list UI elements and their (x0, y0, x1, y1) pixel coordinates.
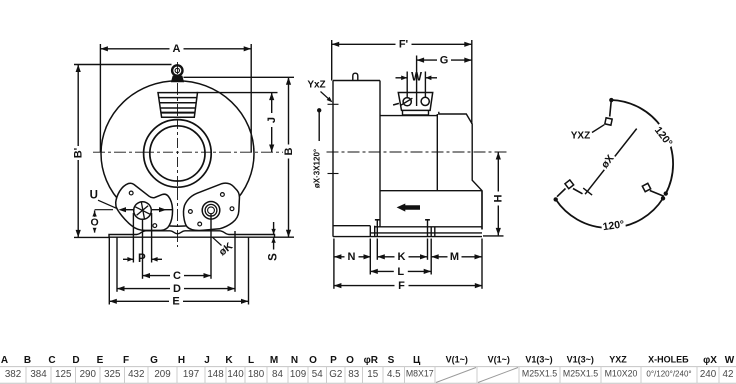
svg-text:148: 148 (207, 369, 224, 380)
dimension H extension line (483, 235, 504, 237)
svg-text:83: 83 (348, 369, 359, 380)
side view bolt hole tick bottom (328, 173, 339, 175)
front view inlet cross centerlines (144, 119, 211, 188)
side view cover plate outline (333, 81, 380, 237)
dimension B-prime line (73, 65, 85, 238)
front view inlet inner ring (150, 126, 205, 181)
dimension B line (283, 77, 295, 237)
svg-text:N: N (348, 251, 356, 263)
svg-text:54: 54 (312, 369, 323, 380)
svg-text:O: O (346, 355, 354, 366)
front view horizontal centerline (93, 151, 296, 153)
svg-text:J: J (266, 117, 278, 123)
svg-text:180: 180 (248, 369, 265, 380)
side view muffler flange right (431, 227, 435, 237)
svg-text:B: B (24, 355, 31, 366)
svg-text:E: E (97, 355, 104, 366)
bolt hole 3 (right) with jog (642, 183, 664, 196)
svg-text:V(1~): V(1~) (446, 355, 468, 365)
svg-text:G: G (150, 355, 158, 366)
svg-text:382: 382 (5, 369, 21, 380)
bolt circle arc bottom (120 deg) (556, 198, 663, 228)
bolt hole 2 (lower left) with jog (557, 180, 583, 197)
svg-text:A: A (1, 355, 8, 366)
dimension G extension line (416, 56, 418, 107)
dimension M line (431, 251, 482, 263)
dimension P extension lines (133, 213, 151, 263)
svg-text:U: U (90, 189, 98, 201)
dimension D line (117, 283, 235, 295)
svg-text:F: F (398, 280, 405, 292)
label phiX (rotated) (598, 151, 618, 172)
svg-text:209: 209 (154, 369, 170, 380)
dimension E extension lines (109, 237, 248, 304)
dimension E line (109, 296, 248, 308)
dimension N line (334, 251, 371, 263)
side view muffler tube top (375, 226, 482, 228)
svg-text:Ц: Ц (413, 355, 421, 366)
svg-text:125: 125 (55, 369, 72, 380)
side view outlet box (380, 191, 482, 230)
front view pad screw holes (129, 191, 234, 227)
svg-text:B': B' (73, 147, 85, 158)
svg-text:X-HOLEБ: X-HOLEБ (648, 355, 689, 365)
svg-text:4.5: 4.5 (387, 369, 401, 380)
svg-text:M25X1.5: M25X1.5 (563, 369, 598, 379)
bolt circle arc right (120 deg) (611, 100, 673, 194)
dimension A line (100, 43, 251, 55)
side view flow arrow (397, 204, 420, 212)
svg-text:290: 290 (80, 369, 97, 380)
bolt circle arc end dots (554, 98, 667, 201)
svg-text:N: N (291, 355, 298, 366)
svg-text:432: 432 (128, 369, 144, 380)
table borders (0, 367, 736, 384)
front view lifting eye boss (172, 76, 183, 81)
svg-text:C: C (48, 355, 55, 366)
svg-text:P: P (330, 355, 337, 366)
dimension J line (266, 93, 278, 152)
dimension H line (493, 152, 505, 235)
svg-text:V(1~): V(1~) (488, 355, 510, 365)
svg-text:E: E (172, 296, 179, 308)
dimension C extension lines (143, 214, 212, 279)
dimension W extension lines (407, 72, 425, 99)
dimension F-prime extension lines (332, 40, 472, 124)
svg-text:84: 84 (272, 369, 283, 380)
svg-text:197: 197 (183, 369, 199, 380)
front view right mounting pad (183, 183, 239, 230)
svg-text:W: W (725, 355, 735, 366)
side view muffler bolt left (375, 220, 380, 237)
phiX diagonal line (583, 129, 637, 196)
svg-text:O: O (91, 217, 99, 229)
side view cover bottom step (333, 225, 370, 227)
dimension O extension line (95, 209, 113, 211)
label 120 upper right (651, 123, 676, 150)
svg-text:384: 384 (30, 369, 47, 380)
side view bottom extension lines (334, 239, 482, 289)
dimension B extension lines (184, 77, 295, 237)
dimension phiX-3x120 line (313, 109, 322, 189)
svg-text:M10X20: M10X20 (605, 369, 638, 379)
dimension J extension line (197, 92, 278, 94)
side view terminal box (398, 93, 432, 115)
bolt hole 1 leader from YXZ (592, 125, 604, 133)
front view vertical centerline (177, 62, 179, 247)
dimension F line (334, 280, 482, 292)
svg-text:G2: G2 (329, 369, 342, 380)
front view housing circle (101, 81, 254, 227)
label YxZ with leader (307, 80, 332, 103)
dimension W line (396, 72, 438, 84)
svg-text:W: W (411, 72, 422, 84)
svg-text:K: K (398, 251, 406, 263)
label U with leader (90, 189, 117, 208)
dimension B-prime extension lines (74, 65, 172, 238)
svg-text:B: B (283, 147, 295, 155)
dimension G line (417, 55, 472, 67)
svg-text:M: M (450, 251, 459, 263)
svg-text:0°/120°/240°: 0°/120°/240° (646, 369, 691, 378)
svg-text:YXZ: YXZ (571, 130, 590, 141)
svg-text:F: F (123, 355, 129, 366)
svg-text:O: O (309, 355, 317, 366)
label 120 bottom (601, 218, 626, 234)
svg-text:109: 109 (290, 369, 306, 380)
svg-text:L: L (248, 355, 254, 366)
dimension F-prime line (332, 39, 472, 51)
dimension A extension lines (100, 44, 251, 152)
svg-text:V1(3~): V1(3~) (525, 355, 552, 365)
front view base plate (109, 231, 275, 237)
side view muffler bolt right (425, 220, 430, 237)
svg-text:F': F' (399, 39, 409, 51)
dimension S line (268, 222, 280, 261)
table N/A diagonal slashes (436, 368, 518, 383)
svg-text:V1(3~): V1(3~) (567, 355, 594, 365)
side view motor outline (439, 112, 482, 230)
side view cable glands (393, 97, 429, 105)
side view foot bottom (333, 236, 482, 238)
side view muffler flange left (370, 226, 374, 237)
table header row (1, 355, 735, 366)
svg-text:øX·3X120°: øX·3X120° (313, 149, 322, 188)
front view lifting eye ring (172, 65, 182, 75)
svg-text:J: J (204, 355, 210, 366)
front view left port (muffler inlet) (134, 202, 152, 220)
svg-text:YxZ: YxZ (307, 80, 325, 91)
svg-text:φX: φX (703, 355, 717, 366)
side view muffler tube bottom (370, 232, 482, 234)
dimension P line (123, 253, 162, 265)
svg-text:K: K (225, 355, 233, 366)
svg-text:240: 240 (700, 369, 717, 380)
front port position arrows (119, 207, 173, 212)
svg-text:D: D (72, 355, 79, 366)
svg-text:G: G (440, 55, 449, 67)
dimension C line (143, 270, 212, 282)
svg-text:42: 42 (723, 369, 734, 380)
side view bolt hole tick top (328, 103, 339, 105)
side view body top edge (380, 115, 437, 117)
dimension O line (89, 210, 100, 232)
front view right port (202, 202, 220, 220)
svg-text:C: C (173, 270, 181, 282)
dimension L line (370, 266, 431, 278)
front view inlet outer ring (144, 120, 212, 188)
svg-text:H: H (493, 194, 505, 202)
svg-text:D: D (173, 283, 181, 295)
svg-text:H: H (178, 355, 185, 366)
svg-text:140: 140 (227, 369, 244, 380)
side view cover top plug (353, 73, 358, 80)
svg-text:L: L (397, 266, 404, 278)
svg-text:YXZ: YXZ (609, 355, 627, 365)
bolt hole 1 (top) with jog (605, 100, 612, 125)
dimension D extension lines (117, 231, 235, 292)
svg-text:M25X1.5: M25X1.5 (522, 369, 557, 379)
label phi-K with leader (213, 237, 236, 258)
side view motor front edge (436, 114, 438, 191)
table data row (5, 369, 734, 380)
svg-text:325: 325 (104, 369, 121, 380)
svg-text:M: M (270, 355, 278, 366)
svg-text:A: A (173, 43, 181, 55)
svg-text:S: S (388, 355, 395, 366)
svg-text:15: 15 (367, 369, 378, 380)
front view terminal box (158, 93, 198, 118)
dimension K line (377, 251, 427, 263)
svg-text:S: S (268, 253, 280, 261)
side view centerline (327, 151, 509, 153)
svg-text:M8X17: M8X17 (406, 369, 434, 379)
svg-text:φR: φR (364, 355, 379, 366)
front view left mounting pad (116, 183, 173, 230)
